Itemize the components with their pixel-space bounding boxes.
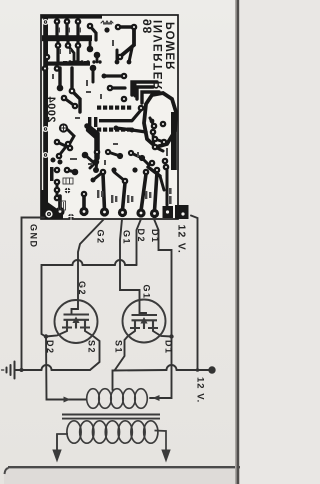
svg-text:D1: D1 bbox=[164, 340, 174, 355]
svg-text:GND: GND bbox=[29, 224, 39, 249]
svg-text:G1: G1 bbox=[142, 285, 152, 300]
svg-text:2004: 2004 bbox=[45, 96, 57, 123]
svg-text:G2: G2 bbox=[96, 230, 106, 245]
svg-text:S1: S1 bbox=[114, 340, 124, 354]
svg-text:D1: D1 bbox=[150, 229, 160, 244]
svg-text:98: 98 bbox=[141, 19, 155, 34]
svg-text:POWER: POWER bbox=[166, 22, 178, 70]
svg-text:INVERTER: INVERTER bbox=[153, 20, 165, 91]
svg-text:G1: G1 bbox=[122, 230, 132, 245]
svg-text:12 V.: 12 V. bbox=[176, 225, 188, 255]
svg-text:12 V.: 12 V. bbox=[195, 377, 206, 403]
svg-text:D2: D2 bbox=[45, 340, 55, 355]
svg-text:S2: S2 bbox=[87, 340, 97, 354]
svg-text:G2: G2 bbox=[77, 281, 87, 296]
svg-text:D2: D2 bbox=[136, 229, 146, 244]
